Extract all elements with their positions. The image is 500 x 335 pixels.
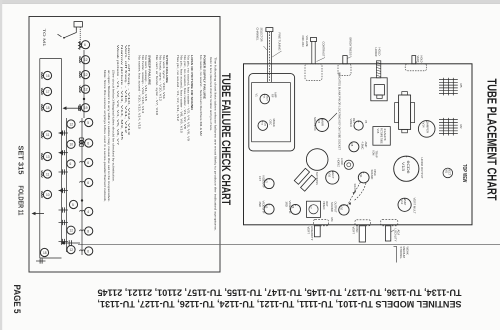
svg-text:V14: V14 [421,123,425,128]
svg-text:12: 12 [70,229,74,233]
heater coil [79,86,80,93]
svg-text:17: 17 [46,90,50,94]
heater coil [41,104,42,111]
diagonal electrolytics [294,168,309,184]
svg-text:ADJ: ADJ [397,230,401,236]
svg-text:OUTPUT: OUTPUT [334,202,338,213]
IF transformer M5 [439,78,458,96]
svg-text:SENTINEL MODELS TU-1101, TU-11: SENTINEL MODELS TU-1101, TU-1111, TU-112… [98,299,462,309]
heater coil [79,210,84,211]
heater coil [41,153,42,160]
chassis top-view box [244,64,473,225]
svg-text:V1: V1 [254,94,258,98]
svg-text:V5: V5 [364,120,368,124]
svg-text:16: 16 [46,74,50,78]
arrow [59,151,63,155]
heater tube L7 [43,190,51,198]
svg-text:6: 6 [87,181,89,185]
inductor loops on rail [79,138,84,140]
svg-text:M2: M2 [459,125,463,129]
svg-text:12: 12 [84,88,88,92]
svg-text:6: 6 [87,141,89,145]
svg-text:6: 6 [70,162,72,166]
metal tube V7 video output [307,201,321,217]
heater tube M5 [67,226,75,234]
bottom wire [40,257,62,259]
heater tube R7 [85,139,93,147]
heater tube R9 [85,178,93,186]
svg-text:11: 11 [46,172,50,176]
svg-text:MEDIUM: MEDIUM [402,247,406,259]
svg-text:8: 8 [87,229,89,233]
capacitor [36,260,46,262]
svg-text:AMP: AMP [274,92,278,98]
svg-text:an open filament in any tube i: an open filament in any tube in series m… [107,70,111,202]
wire to switch [65,31,77,38]
filament chain middle rail [66,118,68,252]
tab locality adj [385,226,390,241]
svg-text:DISC: DISC [373,170,377,176]
capacitor + arrow at wire end [63,242,80,244]
svg-text:18: 18 [46,106,50,110]
svg-text:V11: V11 [359,173,363,178]
svg-text:TU-1134, TU-1136, TU-1137, TU-: TU-1134, TU-1136, TU-1137, TU-1145, TU-1… [98,288,462,298]
IF transformer M2 [439,118,458,136]
svg-text:HOLD: HOLD [420,56,424,63]
brightness stub [343,56,347,64]
dashed socket 3 [381,219,398,225]
svg-text:V10: V10 [339,206,343,211]
scan margin shadows [0,0,500,3]
tab vert osc [359,226,365,242]
svg-text:VIDEO IF: VIDEO IF [288,201,292,214]
capacitor [59,190,69,192]
svg-text:VOLUME: VOLUME [305,36,309,47]
svg-text:PICTURE TUBE: PICTURE TUBE [379,128,383,144]
tuner box [249,74,295,151]
tube V5 2nd video IF [264,204,274,214]
junction dot [81,199,83,201]
svg-text:No vert. or horiz. sync - V7,: No vert. or horiz. sync - V7, V10 [155,55,159,115]
heater coil [79,161,84,162]
svg-text:18: 18 [43,251,47,255]
tube V3 1st video IF [264,179,274,189]
svg-text:TRAP: TRAP [375,151,379,158]
capacitor [59,132,69,134]
heater coil [79,71,80,78]
dashed socket 2 [355,220,370,226]
left section frame [29,17,220,273]
svg-text:V15: V15 [376,129,380,134]
heater tube R11 [85,227,93,235]
arrow pickoff top [65,107,81,109]
capacitor [59,241,69,243]
svg-text:MIXER: MIXER [272,119,276,127]
heater tube R12 [85,247,93,255]
capacitor [59,209,69,211]
svg-text:21ALP4: 21ALP4 [383,129,387,142]
filament chain right rail [83,50,85,118]
picture tube V15 [373,127,390,146]
svg-text:DAMPER: DAMPER [425,121,429,133]
power transformer circle [306,149,328,171]
tube V13 horiz output [394,156,419,181]
svg-text:The following chart lists tube: The following chart lists tubes whose fa… [214,57,218,231]
svg-text:SELECTOR: SELECTOR [259,28,263,42]
ladder top wire [40,58,62,60]
svg-text:(See circuit below.) Marginal: (See circuit below.) Marginal tubes shou… [112,70,116,182]
junction dot [83,98,85,100]
heater tube M3 [67,160,75,168]
svg-text:TUBE PLACEMENT CHART: TUBE PLACEMENT CHART [485,79,500,201]
heater tube M1 [67,120,75,128]
svg-text:VIDEO IF: VIDEO IF [262,201,266,214]
svg-text:SOUND: SOUND [353,184,356,193]
svg-text:5: 5 [87,121,89,125]
svg-text:VERT: VERT [307,227,311,235]
horiz hold pot body [371,78,387,101]
svg-text:LOCK: LOCK [340,158,344,166]
svg-text:VERT: VERT [416,56,420,63]
svg-text:TOP VIEW: TOP VIEW [461,164,467,182]
svg-text:PAGE 5: PAGE 5 [11,285,22,315]
heater tube L5 [43,152,51,160]
heater tube L3 [43,103,51,111]
svg-text:Horiz. off freq. - V10, V12, V: Horiz. off freq. - V10, V12, V13 [127,45,131,136]
svg-text:5: 5 [72,203,74,207]
heater coil [79,230,84,231]
dashed pot vert hold [405,64,427,71]
svg-text:6: 6 [84,43,86,47]
svg-text:SET 315: SET 315 [16,146,23,175]
dashed pot brightness [338,64,351,76]
svg-text:V8: V8 [350,143,354,147]
tab vert linearity [314,226,320,237]
svg-text:10: 10 [70,143,74,147]
tube V4 sound IF [316,119,329,132]
svg-text:FINE TUNING: FINE TUNING [277,33,281,52]
svg-text:SOUND: SOUND [330,202,334,212]
electrolytic can 2 [344,160,353,169]
svg-text:TO M1: TO M1 [42,29,47,48]
vert hold stub [412,56,416,64]
heater coil [41,88,42,95]
svg-text:DET: DET [352,118,356,124]
dashed alignment path [348,182,361,206]
svg-text:AMP: AMP [364,142,368,148]
svg-text:13: 13 [46,155,50,159]
svg-text:No raster, has sound - V10, V1: No raster, has sound - V10, V13, V14, V1… [137,55,141,129]
svg-text:RECT: RECT [448,168,452,175]
svg-text:6: 6 [87,249,89,253]
svg-text:No raster, no sound - Selenium: No raster, no sound - Selenium Rectifier… [199,55,203,136]
svg-text:SOUND IF: SOUND IF [313,117,317,131]
heater tube M2 [67,140,75,148]
svg-text:12: 12 [70,248,74,252]
dashed pot volume [305,64,322,81]
svg-text:VERT MULT: VERT MULT [413,198,417,214]
svg-text:RECT: RECT [331,172,335,179]
svg-text:HORIZ: HORIZ [374,48,378,57]
ladder left rail [39,59,41,259]
heater tube R5 [81,104,89,112]
heater coil [79,56,80,63]
arrow [59,131,63,135]
svg-text:19: 19 [84,106,88,110]
heater tube R3 [81,71,89,79]
tube V10 sound output [339,205,349,215]
svg-text:12: 12 [84,73,88,77]
svg-text:V7: V7 [309,206,313,210]
svg-text:Note: Since this receiver empl: Note: Since this receiver employs tubes … [103,70,107,202]
svg-text:M5: M5 [459,84,463,88]
heater tube L4 [43,131,51,139]
heater tube R2 [81,56,89,64]
svg-text:OFF-ON: OFF-ON [301,36,305,47]
on-off switch [63,37,65,39]
svg-text:4: 4 [87,210,89,214]
heater coil [41,72,42,79]
svg-text:6BZ7: 6BZ7 [266,96,268,102]
svg-text:BRIGHTNESS: BRIGHTNESS [349,38,353,56]
heater tube M4 [69,200,77,208]
dashed socket 1 [314,220,329,226]
svg-text:6AW8: 6AW8 [320,119,324,127]
svg-text:VIDEO IF: VIDEO IF [262,175,266,188]
heater coil [79,250,84,251]
svg-text:10: 10 [46,193,50,197]
svg-text:HOLD: HOLD [378,48,382,56]
svg-text:HORIZ: HORIZ [336,159,340,168]
svg-text:OUT: OUT [325,201,329,207]
horiz hold shaft [376,61,380,78]
channel selector shaft [266,28,273,32]
resistor R [79,42,82,50]
AC plug [74,22,82,27]
heater coil [79,41,80,48]
svg-text:1ST: 1ST [258,176,262,181]
svg-text:SOUND: SOUND [370,170,374,180]
wire B- return [78,243,500,245]
heater coil [79,121,84,122]
heater tube R8 [85,158,93,166]
heater tube R6 [85,118,93,126]
heater tube L2 [43,87,51,95]
tube V16 rectifier [326,171,339,184]
heater coil [79,181,84,182]
heater coil [41,171,42,178]
tube V6 3rd video IF [291,204,301,214]
svg-text:6CD6: 6CD6 [406,161,410,174]
heater tube L6 [43,170,51,178]
svg-text:Has pic, no sound - V1, V2, V1: Has pic, no sound - V1, V2, V11, V12 [176,55,180,121]
svg-text:12: 12 [70,122,74,126]
svg-text:VIDEO: VIDEO [349,119,353,127]
svg-text:VERT: VERT [351,227,355,235]
flyback transformer [399,95,411,129]
capacitor [59,171,69,173]
svg-text:Narrow picture - V13, V14, M3,: Narrow picture - V13, V14, M3, M5 [120,45,124,141]
strong medium weak bracket [396,246,398,262]
svg-text:INDICATES BLANK PIN OR LOCATIN: INDICATES BLANK PIN OR LOCATING KEY ON T… [338,72,342,150]
selenium rectifier M1 [443,168,453,178]
svg-text:WEAK: WEAK [406,247,410,255]
svg-text:CONTRAST: CONTRAST [321,42,325,57]
tube V5 video det [354,121,363,130]
svg-text:OSC: OSC [355,227,359,233]
svg-text:TUBE FAILURE CHECK CHART: TUBE FAILURE CHECK CHART [219,73,233,205]
svg-text:4.5MC: 4.5MC [360,142,364,150]
capacitor [59,152,69,154]
svg-text:STRONG: STRONG [399,247,403,259]
tube V1 RF amp [260,94,270,104]
svg-text:V12: V12 [400,200,404,205]
heater tube M6 [67,246,75,254]
svg-text:M4: M4 [330,218,334,222]
tube V2 osc-mixer [258,121,268,131]
svg-text:6SN7: 6SN7 [403,199,407,206]
arrow pickoff left [34,213,44,215]
SENTINEL models line (rotated 180) [98,288,462,309]
heater coil [79,142,84,143]
ladder right rail [61,59,63,246]
svg-text:11: 11 [46,133,50,137]
tube V8 4.5mc amp [349,142,359,152]
heater coil [41,191,42,198]
svg-text:6: 6 [87,161,89,165]
heater coil [41,131,42,138]
svg-text:V13: V13 [401,162,405,171]
bottom row tubes [40,248,48,256]
arrow [59,189,63,193]
svg-text:HORIZ OUTPUT: HORIZ OUTPUT [420,158,424,179]
svg-text:Weak picture - V1, V2, V3, V4,: Weak picture - V1, V2, V3, V4, V5, V6, V… [116,45,120,146]
tube V14 damper [418,121,435,138]
capacitor [59,222,69,224]
heater tube R10 [85,207,93,215]
heater tube R4 [81,85,89,93]
svg-text:FOLDER 11: FOLDER 11 [16,186,23,216]
svg-text:VIDEO: VIDEO [322,201,326,209]
heater tube R1 [81,41,89,49]
svg-text:3RD: 3RD [285,202,289,207]
heater tube L1 [43,71,51,79]
volume shaft [310,38,316,42]
svg-text:CHANNEL: CHANNEL [256,28,260,41]
heater coil [79,104,80,111]
tube V12 vert mult [398,198,411,211]
svg-text:Refer to tube placement chart: Refer to tube placement chart for locati… [209,57,213,131]
svg-text:12: 12 [84,58,88,62]
tube V11 sound disc [358,172,369,183]
svg-text:2ND: 2ND [258,202,262,207]
svg-text:LINEARITY: LINEARITY [310,226,314,241]
